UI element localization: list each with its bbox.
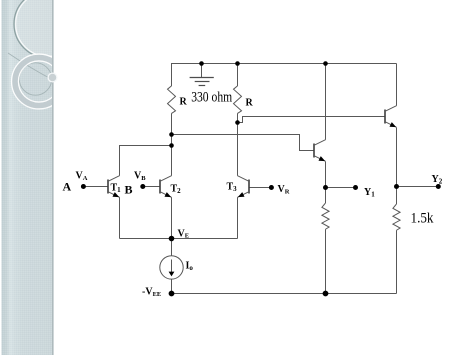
transistor T3 (mirrored) [238,176,250,198]
node rail/R2 junction [235,61,240,66]
svg-text:B: B [125,183,133,197]
node rail/Q5 collector junction [323,61,328,66]
node R2 bottom / Q4 base [235,120,240,125]
resistor R4 (1.5k) [393,204,400,230]
wire right R branch top [237,63,239,86]
svg-text:VB: VB [134,171,146,183]
svg-text:VR: VR [278,184,290,196]
wire node to Q4 base [238,117,386,123]
transistor Q5 (Y1 emitter follower) [314,140,326,162]
wire emitter bus VE [120,238,238,240]
svg-text:A: A [63,180,72,194]
wire Y2 node down [396,187,398,205]
wire current source to VEE rail [171,279,173,293]
node R1 bottom / T1 collector [169,143,174,148]
svg-text:Y1: Y1 [364,187,375,199]
node rail/R3 junction [323,291,329,297]
wire T1 emitter down [119,197,121,238]
wire -VEE rail [172,293,397,295]
wire T3 base to VR [249,187,271,189]
wire Q5 collector up [325,64,327,140]
wire R3 bottom to rail [325,229,327,293]
transistor T1 [108,176,120,198]
wire input B to T2 base [143,186,160,188]
svg-text:R: R [180,97,188,108]
wire T2 emitter down [171,197,173,238]
svg-text:VA: VA [76,171,88,183]
node R1 bottom / Q5 base [169,132,174,137]
wire Y1 stub right [326,187,356,189]
wire VE to current source [171,239,173,256]
resistor R1 (left 330 ohm) [168,86,176,114]
wire Q4 collector down from rail [396,64,398,106]
wire Q5 emitter to Y1 [325,162,327,188]
svg-text:T3: T3 [227,182,238,194]
node input B terminal [140,184,145,189]
node -VEE junction [169,291,175,297]
wire input A to T1 base [83,186,108,188]
wire L from node to T1 collector [120,146,172,176]
ground stub [201,64,203,78]
wire R2 bottom to T3 collector [237,113,239,175]
wire Q4 emitter to Y2 [396,128,398,187]
svg-text:330 ohm: 330 ohm [191,90,233,106]
wire T3 emitter down [237,197,239,238]
wire R4 bottom to rail [396,230,398,293]
wire Y2 stub right [397,186,439,188]
current source I0 circle [160,256,183,279]
resistor R2 (right R) [234,86,242,114]
ground symbol bars [190,78,214,86]
svg-text:1.5k: 1.5k [411,211,435,227]
wire left R branch top [171,63,173,86]
svg-text:R: R [246,98,254,109]
resistor R3 (Y1 pulldown) [322,203,329,229]
node Y2 junction [394,184,399,189]
node input A terminal [81,184,86,189]
node Y1 junction [323,185,328,190]
wire VCC top rail [172,63,397,65]
svg-text:Y2: Y2 [432,174,443,186]
wire node to Q5 base [172,135,315,151]
node VE junction [169,236,175,242]
node ground/rail junction [199,61,204,66]
current source arrow [169,260,175,277]
wire Y1 node down [325,188,327,204]
transistor T2 [160,176,172,198]
node VR terminal [269,185,274,190]
transistor Q4 (Y2 emitter follower) [385,106,397,128]
svg-text:-VEE: -VEE [142,287,161,299]
node Y1 terminal [353,185,358,190]
svg-text:T1: T1 [111,183,122,195]
wire R1 bottom to T2 collector [171,113,173,175]
svg-text:T2: T2 [171,184,182,196]
svg-text:Io: Io [186,261,194,273]
svg-text:VE: VE [178,228,190,239]
node Y2 terminal [436,184,441,189]
